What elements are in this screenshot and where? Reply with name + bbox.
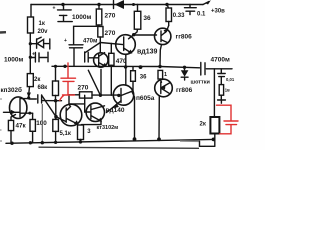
svg-text:2к: 2к	[200, 122, 206, 128]
svg-text:п605а: п605а	[136, 95, 155, 102]
svg-text:0.1: 0.1	[197, 12, 206, 18]
svg-text:47к: 47к	[16, 123, 27, 130]
svg-text:270: 270	[78, 85, 89, 92]
svg-text:1000м: 1000м	[72, 14, 91, 21]
svg-text:гг806: гг806	[176, 87, 193, 94]
svg-text:5,1к: 5,1к	[60, 131, 71, 137]
svg-text:+30в: +30в	[211, 9, 225, 15]
svg-text:470м: 470м	[83, 39, 98, 45]
svg-text:+: +	[53, 6, 56, 12]
svg-text:270: 270	[105, 13, 116, 20]
svg-text:68к: 68к	[38, 85, 48, 91]
svg-text:4700м: 4700м	[211, 57, 230, 64]
svg-text:1в: 1в	[225, 88, 230, 93]
svg-text:270: 270	[105, 30, 116, 37]
svg-text:2к: 2к	[34, 77, 40, 83]
svg-text:1: 1	[164, 72, 167, 78]
svg-text:кп302б: кп302б	[1, 86, 22, 94]
svg-text:+: +	[64, 38, 67, 44]
svg-text:1к: 1к	[39, 21, 45, 27]
svg-text:20v: 20v	[38, 29, 49, 35]
svg-text:кт3102м: кт3102м	[97, 125, 119, 131]
svg-text:+: +	[32, 52, 35, 58]
svg-text:0.33: 0.33	[173, 13, 185, 19]
svg-text:вд139: вд139	[137, 49, 158, 56]
svg-text:0,01: 0,01	[226, 77, 235, 82]
svg-text:гг806: гг806	[176, 34, 193, 41]
svg-text:36: 36	[140, 75, 147, 81]
svg-text:1000м: 1000м	[4, 57, 23, 64]
svg-text:шоттки: шоттки	[191, 80, 210, 86]
svg-text:36: 36	[143, 15, 151, 22]
svg-text:вд140: вд140	[106, 107, 125, 114]
